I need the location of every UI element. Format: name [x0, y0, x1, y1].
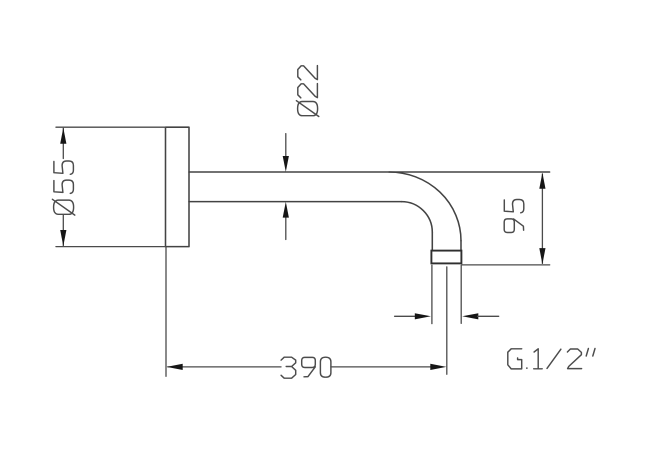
vertical tube left edge: [431, 232, 433, 250]
Ø22 upper arrowhead (points down at tube top): [283, 156, 289, 172]
inner bend arc: [402, 202, 433, 233]
flange top extension line (for Ø55): [56, 126, 166, 128]
Ø22 text (rotated): [296, 66, 318, 117]
390 left extension line (from flange): [165, 247, 167, 376]
Ø55 dimension line lower segment: [62, 215, 64, 246]
Ø22 upper arrow line: [285, 134, 287, 158]
Ø55 text (rotated): [52, 161, 74, 215]
tube top edge (extends right as extension line for 95 dim): [189, 171, 550, 173]
95 dimension line: [541, 174, 543, 263]
G.1/2 left arrowhead (points right): [415, 313, 431, 319]
end cap (threaded connector): [431, 251, 461, 264]
390 right arrowhead: [430, 364, 446, 370]
thread stub left extension line: [431, 265, 433, 323]
390 left arrowhead: [167, 364, 183, 370]
Ø55 dimension line upper segment: [62, 128, 64, 158]
period of G.1/2: [526, 367, 528, 369]
G.1/2 right arrowhead (points left): [462, 313, 478, 319]
Ø22 lower arrowhead (points up at tube bottom): [283, 202, 289, 218]
thread stub right extension line: [460, 265, 462, 323]
Ø55 bottom arrowhead: [60, 230, 66, 246]
outer bend arc: [389, 172, 461, 241]
center extension line to 390 dim: [446, 267, 448, 374]
G.1/2" thread label text: [508, 349, 595, 369]
flange bottom extension line (for Ø55): [56, 246, 166, 248]
vertical tube right edge: [460, 241, 462, 251]
95 dim bottom arrowhead: [539, 248, 545, 264]
wall flange: [166, 127, 190, 246]
390 dimension line left segment: [168, 366, 281, 368]
G.1/2 left arrow line: [395, 315, 416, 317]
tube bottom edge: [189, 201, 402, 203]
95 dim top arrowhead: [539, 173, 545, 189]
G.1/2 right arrow line: [478, 315, 499, 317]
390 text: [281, 357, 331, 378]
95 dim bottom extension line: [462, 264, 550, 266]
390 dimension line right segment: [331, 366, 431, 368]
Ø55 top arrowhead: [60, 128, 66, 144]
Ø22 lower arrow line: [285, 217, 287, 240]
95 text (rotated): [504, 200, 524, 233]
